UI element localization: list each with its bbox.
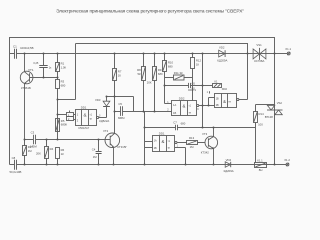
svg-text:&: & (183, 103, 186, 108)
IC DD2.2 (207, 87, 239, 108)
wire x57 mid (57, 100, 59, 140)
wire DD3 lower pin to bus (175, 148, 186, 165)
transistor VT2 (103, 129, 127, 164)
wire gate to triac (256, 104, 275, 106)
wire v75 (58, 44, 76, 100)
resistor R1 (56, 54, 67, 78)
terminal X1.1 (285, 47, 291, 55)
capacitor C5 (115, 102, 134, 120)
svg-text:C5: C5 (118, 102, 122, 106)
wire DD4 out up (239, 54, 248, 100)
resistor R13 (177, 136, 205, 149)
svg-text:VD4: VD4 (226, 158, 232, 162)
svg-text:1А: 1А (154, 139, 157, 142)
diode VD4 (224, 158, 234, 173)
svg-text:1В: 1В (216, 98, 219, 101)
IC DD1.1 (76, 105, 99, 130)
svg-text:2В: 2В (216, 104, 219, 107)
resistor R10 (163, 54, 174, 78)
capacitor C1 (13, 45, 34, 59)
resistor R2 (23, 140, 33, 165)
svg-text:ВТ138: ВТ138 (265, 115, 273, 119)
svg-text:1000х0,5В: 1000х0,5В (20, 46, 34, 50)
relay K1 (255, 159, 267, 172)
wire frame (10, 38, 275, 165)
resistor R3 (56, 78, 66, 100)
svg-text:К561ЛА7: К561ЛА7 (79, 126, 90, 130)
wire DD2 out to DD4 (199, 98, 215, 106)
svg-text:К1.1: К1.1 (257, 159, 263, 163)
svg-text:&: & (83, 113, 86, 118)
transistor VT1 (20, 54, 34, 140)
wire v193 (192, 78, 194, 101)
svg-text:&: & (162, 139, 165, 144)
long node line y139 (25, 139, 111, 141)
svg-text:680К: 680К (61, 123, 68, 127)
svg-text:VT1: VT1 (28, 68, 34, 72)
svg-text:0,25: 0,25 (33, 61, 39, 65)
resistor R9 (153, 54, 164, 112)
transistor VT3 (201, 128, 218, 165)
svg-text:680: 680 (181, 121, 186, 125)
svg-text:1М: 1М (93, 155, 98, 159)
svg-text:C1: C1 (13, 45, 17, 49)
svg-text:R13: R13 (189, 136, 195, 140)
capacitor C8 (bottom-left series) (10, 156, 22, 174)
svg-text:50,0х10В: 50,0х10В (10, 170, 22, 174)
svg-text:&: & (223, 99, 226, 104)
svg-text:2В: 2В (154, 147, 157, 150)
wire bottom bus (10, 164, 287, 166)
resistor R14 (254, 105, 265, 128)
resistor R8 (137, 54, 152, 112)
svg-text:КТ361Б: КТ361Б (21, 86, 31, 90)
svg-text:DD2: DD2 (222, 87, 228, 91)
svg-text:VD2: VD2 (219, 45, 225, 49)
resistor R5 (56, 119, 68, 132)
svg-text:КТ315Г: КТ315Г (117, 145, 127, 149)
svg-text:1К: 1К (61, 152, 65, 156)
wire DD1 output (99, 108, 107, 117)
svg-text:КД209А: КД209А (224, 169, 234, 173)
svg-text:C3: C3 (31, 130, 35, 134)
capacitor C7 (173, 120, 186, 130)
svg-text:100: 100 (258, 123, 263, 127)
capacitor C2 (33, 54, 52, 78)
zener VS1 (253, 43, 266, 63)
svg-text:VD3: VD3 (95, 98, 101, 102)
wire v114 (114, 97, 116, 134)
input box DD1.1 (67, 111, 74, 122)
svg-text:VT3: VT3 (202, 132, 208, 136)
svg-text:1М: 1М (190, 145, 195, 149)
resistor R6 (56, 148, 65, 165)
wire to relay (255, 128, 257, 163)
svg-text:1,0К: 1,0К (61, 65, 67, 69)
svg-text:КС708А: КС708А (254, 59, 264, 63)
diode VD2 (217, 45, 227, 62)
svg-text:R14: R14 (259, 112, 265, 116)
svg-text:1К: 1К (196, 62, 200, 66)
wire inner rail (76, 44, 248, 54)
wire node line y111 (134, 111, 172, 113)
svg-text:20К: 20К (147, 81, 152, 85)
svg-text:Электрическая принципиальная с: Электрическая принципиальная схема регул… (56, 9, 244, 15)
svg-text:МБМ: МБМ (118, 116, 125, 120)
wire v202 (202, 54, 204, 128)
svg-text:Х1.2: Х1.2 (284, 158, 290, 162)
svg-text:1А: 1А (173, 103, 176, 107)
svg-text:КТ342: КТ342 (201, 151, 209, 155)
svg-text:R11 3К: R11 3К (174, 71, 183, 75)
IC DD2.1 (167, 88, 198, 116)
wire top bus (10, 53, 288, 55)
svg-text:DD1: DD1 (81, 105, 87, 109)
svg-text:1М: 1М (28, 149, 33, 153)
svg-text:20К: 20К (36, 152, 41, 156)
resistor R11 horizontal (165, 71, 193, 80)
svg-text:DD2.1: DD2.1 (188, 88, 196, 92)
relay coil K1 (203, 79, 222, 87)
wire v144 (144, 112, 146, 165)
diode VD3 (95, 97, 110, 123)
svg-text:C4: C4 (92, 147, 96, 151)
IC DD1.2 (153, 132, 177, 152)
triac VS2 (265, 101, 283, 119)
resistor R4 (36, 140, 54, 165)
wire node line y127 (145, 127, 256, 129)
svg-text:8Н: 8Н (259, 168, 263, 172)
svg-text:VT2: VT2 (103, 129, 109, 133)
svg-text:C8: C8 (12, 156, 16, 160)
wire v164 (165, 78, 172, 104)
svg-text:DD2: DD2 (179, 97, 185, 101)
svg-text:680: 680 (168, 65, 173, 69)
svg-text:VS1: VS1 (256, 43, 262, 47)
capacitor C3 (30, 130, 37, 148)
svg-text:C6: C6 (192, 82, 196, 86)
svg-text:VS2: VS2 (277, 101, 283, 105)
svg-text:Х1.1: Х1.1 (285, 47, 291, 51)
svg-text:1В: 1В (173, 111, 176, 115)
svg-text:C7: C7 (173, 120, 177, 124)
wire VT1 base to R stack (30, 77, 58, 79)
svg-text:680: 680 (61, 83, 66, 87)
svg-text:КД209А: КД209А (217, 59, 227, 63)
svg-text:R4: R4 (50, 147, 54, 151)
capacitor C6 (165, 82, 203, 91)
svg-text:1К: 1К (118, 74, 122, 78)
svg-text:КД522А: КД522А (99, 119, 109, 123)
svg-text:DD1: DD1 (159, 132, 165, 136)
wire rail h2 (107, 97, 134, 112)
terminal X1.2 (284, 158, 290, 166)
svg-text:680: 680 (158, 72, 163, 76)
resistor R12 (191, 54, 202, 78)
capacitor C4 (92, 140, 102, 165)
wire DD1 inputs (58, 115, 76, 120)
svg-text:5К: 5К (138, 72, 142, 76)
resistor R7 (113, 54, 122, 97)
wire DD3 inputs (145, 142, 153, 148)
